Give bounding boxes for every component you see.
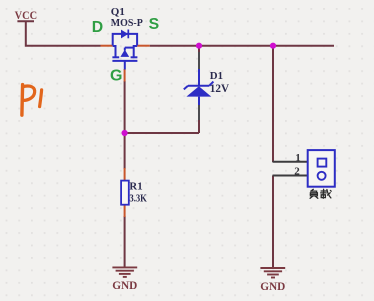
svg-text:VCC: VCC [15,8,37,22]
svg-text:G: G [110,68,122,85]
svg-text:R1: R1 [129,180,142,192]
svg-text:1: 1 [295,152,301,164]
svg-text:12V: 12V [210,83,229,95]
svg-text:3.3K: 3.3K [129,193,147,205]
svg-text:D1: D1 [210,70,223,82]
svg-text:GND: GND [112,280,137,292]
svg-text:D: D [92,19,103,36]
svg-text:MOS-P: MOS-P [111,17,143,29]
svg-text:2: 2 [294,166,300,178]
svg-text:S: S [149,16,160,33]
svg-text:Q1: Q1 [111,6,125,18]
svg-text:GND: GND [260,281,285,293]
